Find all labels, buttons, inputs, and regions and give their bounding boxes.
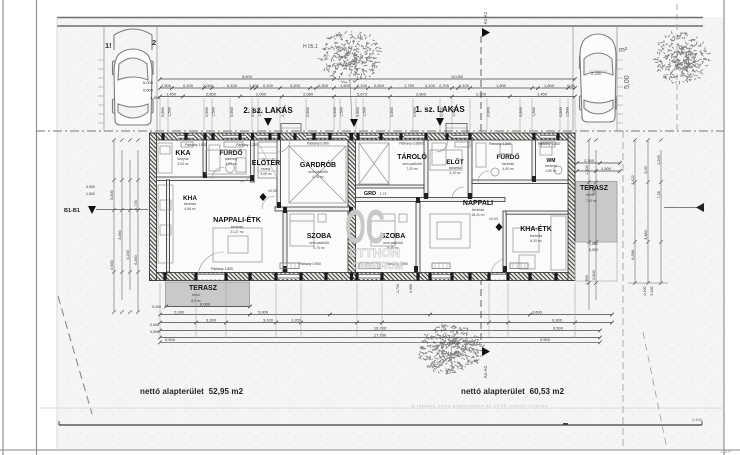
svg-text:0,900: 0,900 [356, 107, 360, 117]
svg-text:8,288: 8,288 [631, 250, 635, 260]
svg-text:1,450: 1,450 [150, 95, 161, 100]
svg-text:21,37 m²: 21,37 m² [230, 230, 244, 234]
svg-text:±0,00: ±0,00 [268, 189, 277, 193]
svg-text:kerámia: kerámia [184, 202, 196, 206]
svg-text:3,060: 3,060 [118, 230, 122, 240]
svg-text:2,422: 2,422 [631, 175, 635, 185]
svg-text:1,500: 1,500 [566, 107, 570, 117]
svg-text:kerámia: kerámia [502, 162, 514, 166]
svg-text:warmbg: warmbg [225, 157, 237, 161]
svg-text:0,900: 0,900 [409, 284, 413, 293]
svg-text:0,900: 0,900 [333, 107, 337, 117]
svg-text:2,700: 2,700 [439, 83, 450, 88]
svg-text:4,76 m²: 4,76 m² [312, 175, 324, 179]
svg-text:0,900: 0,900 [205, 107, 209, 117]
svg-text:0,100: 0,100 [227, 83, 238, 88]
svg-text:3,600: 3,600 [532, 309, 543, 314]
svg-text:1,200: 1,200 [291, 317, 302, 322]
svg-text:1,500: 1,500 [601, 166, 612, 171]
svg-text:9,70 m²: 9,70 m² [313, 246, 325, 250]
svg-text:0,900: 0,900 [519, 107, 523, 117]
svg-text:kerámia: kerámia [231, 225, 243, 229]
svg-text:KHA-ÉTK: KHA-ÉTK [520, 224, 552, 233]
svg-text:0,100: 0,100 [459, 83, 470, 88]
svg-text:a lakasok netto alapterulete a: a lakasok netto alapterulete az OTEK sze… [412, 404, 548, 408]
svg-text:GRD: GRD [364, 191, 376, 197]
svg-text:0,900: 0,900 [390, 107, 394, 117]
svg-text:Párkány 1,300: Párkány 1,300 [489, 142, 511, 146]
svg-text:1,800: 1,800 [496, 83, 507, 88]
svg-text:sem padlofűt: sem padlofűt [383, 241, 402, 245]
svg-text:CENTRUM: CENTRUM [352, 260, 403, 272]
svg-text:H 05.1: H 05.1 [303, 44, 318, 50]
svg-text:0,900: 0,900 [161, 107, 165, 117]
svg-text:2,080: 2,080 [303, 91, 314, 96]
svg-text:TERASZ: TERASZ [189, 285, 218, 292]
svg-text:5,673: 5,673 [357, 91, 368, 96]
svg-text:KKA: KKA [175, 150, 190, 157]
svg-text:FÜRDŐ: FÜRDŐ [219, 148, 242, 157]
svg-text:2,200: 2,200 [591, 71, 602, 76]
svg-text:0,100: 0,100 [357, 83, 368, 88]
svg-text:0,540: 0,540 [150, 323, 159, 327]
svg-text:2,800: 2,800 [416, 91, 427, 96]
svg-text:1,50 m²: 1,50 m² [545, 169, 557, 173]
svg-text:Párkány 0,900: Párkány 0,900 [307, 142, 329, 146]
svg-text:0,500: 0,500 [592, 270, 596, 280]
svg-text:7,28: 7,28 [657, 191, 661, 198]
svg-text:18,2x m²: 18,2x m² [471, 213, 485, 217]
svg-text:Párkány 1,800: Párkány 1,800 [538, 142, 560, 146]
svg-text:4,730: 4,730 [134, 200, 138, 210]
svg-text:1,401: 1,401 [249, 83, 260, 88]
svg-text:3,10 m²: 3,10 m² [449, 171, 461, 175]
svg-text:6,360: 6,360 [134, 255, 138, 265]
svg-text:1:100: 1:100 [720, 449, 732, 454]
svg-text:0,100: 0,100 [263, 83, 274, 88]
svg-text:Párkány 1,800: Párkány 1,800 [211, 267, 233, 271]
svg-text:NAPPALI-ÉTK: NAPPALI-ÉTK [213, 215, 262, 224]
svg-text:1,500: 1,500 [340, 83, 351, 88]
svg-text:1,450: 1,450 [537, 91, 548, 96]
svg-text:5,000: 5,000 [258, 309, 269, 314]
svg-text:0,560: 0,560 [110, 260, 114, 270]
svg-text:1,500: 1,500 [340, 107, 344, 117]
svg-text:4,56 m²: 4,56 m² [184, 207, 196, 211]
svg-text:2,930: 2,930 [174, 309, 185, 314]
svg-text:0,500: 0,500 [540, 337, 551, 342]
svg-text:0,190: 0,190 [643, 287, 647, 296]
svg-text:kerámia: kerámia [545, 164, 557, 168]
svg-text:4,40 m²: 4,40 m² [502, 167, 514, 171]
svg-text:0,500: 0,500 [165, 337, 176, 342]
svg-text:OTTHON: OTTHON [348, 246, 400, 260]
svg-text:2,200: 2,200 [657, 155, 661, 165]
svg-text:1,73: 1,73 [380, 192, 387, 196]
svg-text:kerámia: kerámia [472, 208, 484, 212]
svg-text:±0,00: ±0,00 [489, 217, 498, 221]
svg-text:A1-A1: A1-A1 [483, 11, 488, 24]
svg-text:0,300: 0,300 [318, 83, 329, 88]
svg-text:6,000: 6,000 [200, 301, 211, 306]
svg-text:3,04 m²: 3,04 m² [177, 162, 189, 166]
svg-text:0,500: 0,500 [143, 88, 154, 93]
svg-text:0,100: 0,100 [425, 83, 436, 88]
svg-text:kerámia: kerámia [449, 166, 461, 170]
svg-text:1,730: 1,730 [396, 284, 400, 293]
svg-text:2: 2 [152, 38, 156, 47]
svg-text:0,94: 0,94 [567, 83, 576, 88]
svg-text:2. sz. LAKÁS: 2. sz. LAKÁS [243, 106, 293, 115]
svg-text:3,200: 3,200 [290, 83, 301, 88]
svg-text:2,850: 2,850 [206, 91, 217, 96]
svg-text:10,050: 10,050 [451, 74, 464, 79]
svg-text:4,230: 4,230 [126, 250, 130, 260]
svg-text:1,800: 1,800 [544, 83, 555, 88]
svg-text:3,20 m²: 3,20 m² [225, 162, 237, 166]
svg-text:7,20 m²: 7,20 m² [406, 167, 418, 171]
svg-text:1,500: 1,500 [212, 107, 216, 117]
svg-text:0,590: 0,590 [150, 330, 159, 334]
svg-text:0,900: 0,900 [86, 185, 95, 189]
svg-text:2,300: 2,300 [584, 158, 595, 163]
svg-text:6,190: 6,190 [650, 287, 654, 296]
svg-text:8,600: 8,600 [242, 74, 253, 79]
svg-text:sem padlofűt: sem padlofűt [309, 241, 328, 245]
svg-text:0,500: 0,500 [374, 83, 385, 88]
svg-text:0,900: 0,900 [487, 107, 491, 117]
svg-text:2,300: 2,300 [476, 91, 487, 96]
svg-text:konyha: konyha [178, 157, 189, 161]
svg-text:0,500: 0,500 [553, 325, 564, 330]
svg-text:kerámia: kerámia [530, 234, 542, 238]
svg-text:0,900: 0,900 [559, 107, 563, 117]
svg-text:1. sz. LAKÁS: 1. sz. LAKÁS [415, 105, 465, 114]
svg-text:1,450: 1,450 [166, 91, 177, 96]
svg-text:ELŐT: ELŐT [446, 157, 463, 166]
svg-text:7,900: 7,900 [161, 83, 172, 88]
svg-text:0,300: 0,300 [552, 317, 563, 322]
svg-text:3,100: 3,100 [263, 317, 274, 322]
svg-text:1,750: 1,750 [404, 83, 415, 88]
svg-text:17,730: 17,730 [374, 332, 387, 337]
svg-text:KHA: KHA [183, 195, 197, 202]
svg-text:ELŐTÉR: ELŐTÉR [252, 158, 280, 167]
svg-text:6,005: 6,005 [143, 80, 154, 85]
svg-text:nettó alapterület 52,95 m2: nettó alapterület 52,95 m2 [140, 387, 244, 396]
svg-text:sem padlofűt: sem padlofűt [308, 170, 327, 174]
svg-text:NAPPALI: NAPPALI [463, 200, 493, 207]
svg-text:2,000: 2,000 [203, 83, 214, 88]
svg-text:Párkány 1,300: Párkány 1,300 [236, 143, 258, 147]
svg-text:0,900: 0,900 [306, 107, 310, 117]
svg-text:0,900: 0,900 [230, 107, 234, 117]
svg-text:1,800: 1,800 [585, 165, 589, 175]
svg-text:terasz: terasz [261, 167, 271, 171]
svg-text:TÁROLÓ: TÁROLÓ [397, 152, 427, 161]
svg-text:3,300: 3,300 [206, 317, 217, 322]
svg-text:nettó alapterület 60,53 m2: nettó alapterület 60,53 m2 [461, 387, 565, 396]
svg-text:0,430: 0,430 [152, 305, 161, 309]
svg-text:Párkány 1,800: Párkány 1,800 [185, 143, 207, 147]
svg-text:3,08 m²: 3,08 m² [260, 172, 272, 176]
svg-text:GARDRÓB: GARDRÓB [300, 160, 336, 169]
svg-text:1,500: 1,500 [86, 192, 95, 196]
svg-text:3,383: 3,383 [644, 230, 648, 240]
svg-text:A1-A1: A1-A1 [483, 365, 488, 378]
svg-text:FÜRDŐ: FÜRDŐ [496, 152, 519, 161]
svg-text:0,550: 0,550 [592, 185, 596, 195]
svg-text:m²: m² [619, 47, 628, 54]
svg-text:SZOBA: SZOBA [307, 233, 332, 240]
svg-text:5,500: 5,500 [110, 190, 114, 200]
svg-text:1!: 1! [105, 41, 112, 50]
svg-text:6,000: 6,000 [589, 248, 598, 252]
svg-text:0,100: 0,100 [183, 83, 194, 88]
svg-text:1,500: 1,500 [532, 107, 536, 117]
svg-text:16,730: 16,730 [374, 325, 387, 330]
svg-text:1:100: 1:100 [692, 417, 703, 422]
svg-text:1,500: 1,500 [363, 107, 367, 117]
svg-text:sem padlofűt: sem padlofűt [402, 162, 421, 166]
svg-text:B1-B1: B1-B1 [64, 208, 80, 214]
svg-text:Párkány 0,900: Párkány 0,900 [299, 262, 321, 266]
svg-text:3,00: 3,00 [644, 166, 648, 173]
svg-text:1,060: 1,060 [589, 242, 598, 246]
svg-text:8,20 m²: 8,20 m² [530, 239, 542, 243]
svg-text:1,500: 1,500 [168, 107, 172, 117]
svg-text:2,060: 2,060 [256, 91, 267, 96]
svg-text:Párkány 0,5600x: Párkány 0,5600x [399, 142, 425, 146]
svg-text:5,00: 5,00 [624, 75, 631, 89]
